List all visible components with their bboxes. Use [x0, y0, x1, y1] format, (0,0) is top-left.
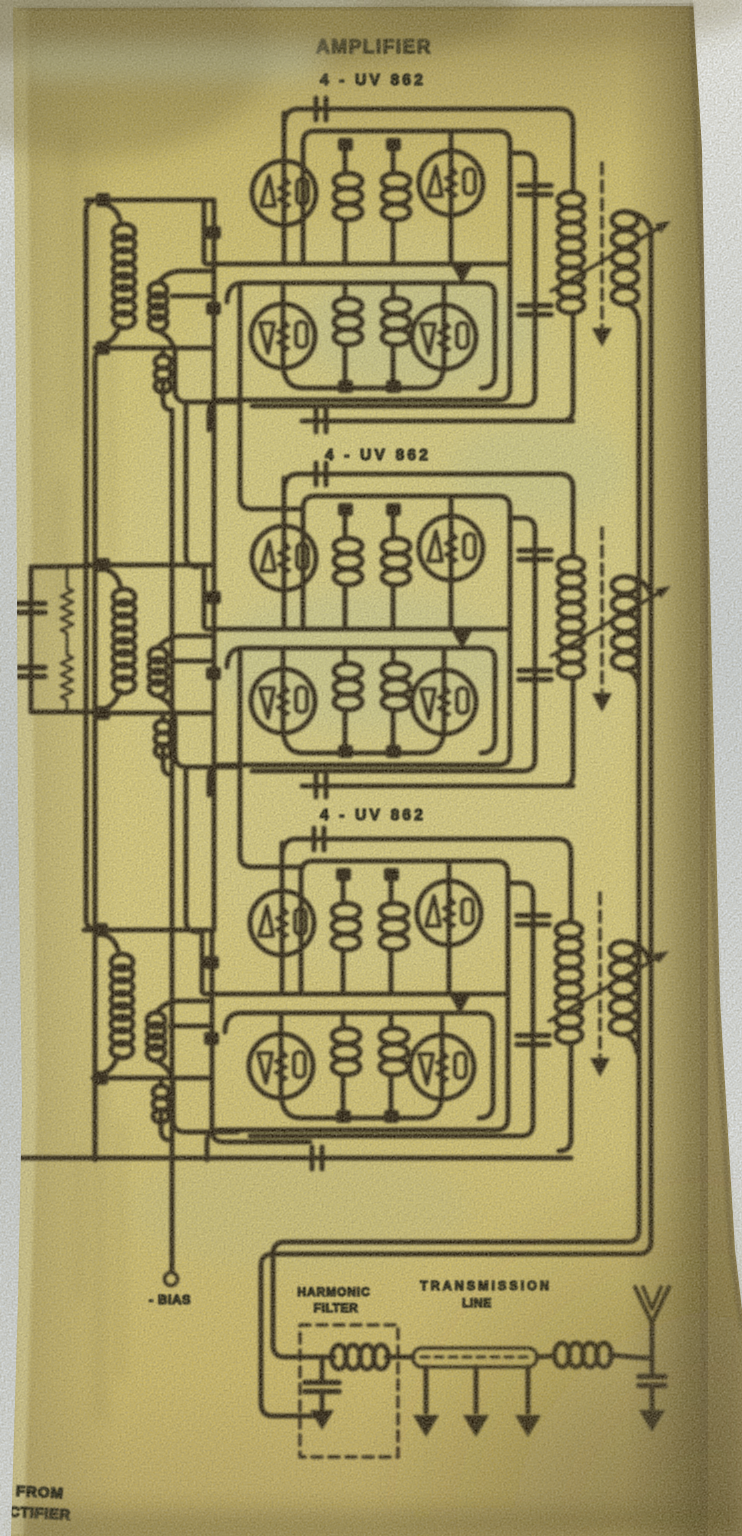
wire: bottom tube V4 centre — [442, 287, 447, 362]
wire: inner top loop / right side / bottom run — [207, 861, 508, 1160]
grid leak / choke — [161, 715, 166, 721]
RF choke column top x=393 — [391, 515, 396, 535]
interstage coupling risers — [240, 285, 303, 509]
tube V3 (UV 862) — [251, 669, 315, 733]
tube V2 (UV 862) — [417, 881, 481, 945]
wire: lower sub-box top H4 — [227, 283, 495, 388]
tube V1 (UV 862) — [252, 161, 316, 225]
wire: lower sub-box top H4 — [225, 1013, 493, 1118]
ground arrow mid-stage — [460, 629, 465, 633]
output tank: primary coil — [558, 192, 584, 208]
input transformer: node dots — [94, 923, 108, 937]
secondary lower tap to grid bus — [172, 659, 214, 664]
coupling capacitors right column — [519, 548, 551, 554]
input transformer: node dots — [96, 193, 110, 207]
coupling capacitors right column — [519, 183, 551, 189]
RF choke column bottom x=345 — [343, 285, 348, 296]
tuning dashed line with arrow — [600, 528, 604, 691]
ground arrow mid-stage — [458, 994, 463, 998]
grid bus with blobs — [210, 930, 215, 1078]
tube V1 (UV 862) — [250, 891, 314, 955]
wire: bottom grid feed — [95, 346, 214, 351]
wire: tube V2 centre riser — [449, 133, 454, 262]
RF choke column bottom x=393 — [391, 285, 396, 296]
paper top edge — [18, 5, 694, 9]
wire: outer top loop with plate blocking cap — [282, 839, 571, 922]
wire: tube V1 centre riser — [280, 843, 285, 992]
wire: left vertical from top feed to H3 — [200, 932, 205, 992]
grid bus with blobs — [212, 565, 217, 713]
wire: bottom tube V4 centre — [440, 1017, 445, 1092]
wire: inner top loop / right side / bottom run — [209, 496, 510, 795]
wire: bottom tube V3 centre — [281, 652, 286, 727]
tuning dashed line with arrow — [598, 893, 602, 1056]
output tank: secondary coil — [612, 212, 638, 229]
RF choke column bottom x=393 — [389, 1015, 394, 1026]
plate supply line stage1 — [302, 419, 573, 424]
antenna — [650, 1322, 655, 1377]
paper right edge — [691, 4, 742, 1330]
plate supply line stage2 — [302, 784, 573, 789]
antenna series cap — [639, 1374, 665, 1380]
wire: outer top loop with plate blocking cap — [284, 109, 573, 192]
RF choke column top x=345 — [343, 515, 348, 535]
harmonic filter shunt cap — [320, 1357, 325, 1381]
RF choke column top x=345 — [343, 150, 348, 170]
wire: bottom run H7 and right capacitor column — [252, 518, 535, 771]
RF choke column bottom x=345 — [343, 650, 348, 661]
tube V4 (UV 862) — [410, 1035, 474, 1099]
wire: mid grid bus H3 — [204, 992, 508, 997]
input transformer secondary — [147, 1013, 165, 1028]
RF choke column bottom x=393 — [391, 650, 396, 661]
tube V2 (UV 862) — [419, 151, 483, 215]
input transformer secondary — [149, 648, 167, 663]
plate supply line stage3 (from rectifier) — [20, 1156, 571, 1161]
wire: bottom tube connector H5 — [281, 1092, 442, 1118]
output tank: primary coil — [556, 922, 582, 938]
wire: inner top loop / right side / bottom run — [209, 131, 510, 430]
wire: tube V2 centre riser — [447, 863, 452, 992]
RF choke column bottom x=345 — [341, 1015, 346, 1026]
capacitor C-top (plate blocking) — [314, 98, 319, 120]
input transformer secondary — [149, 283, 167, 298]
secondary lower tap to grid bus — [172, 294, 214, 299]
ground arrow mid-stage — [460, 264, 465, 268]
output tank: secondary coil — [612, 577, 638, 594]
wire: left vertical from top feed to H3 — [202, 567, 207, 627]
variable coupling arrow — [551, 590, 664, 656]
grid bus inter-stage links — [212, 348, 217, 565]
input transformer primary — [103, 569, 120, 585]
right bus inner — [273, 322, 639, 1357]
interstage grid-return risers — [186, 404, 198, 567]
tuning dashed line with arrow — [600, 163, 604, 326]
tube V1 (UV 862) — [252, 526, 316, 590]
coupling capacitors right column — [517, 913, 549, 919]
wire: bottom tube V3 centre — [279, 1017, 284, 1092]
bias bus — [170, 410, 175, 1272]
wire: tube V2 centre riser — [449, 498, 454, 627]
secondary lower tap to grid bus — [170, 1024, 212, 1029]
harmonic filter box (dashed) — [300, 1325, 398, 1457]
RF choke column top x=393 — [389, 880, 394, 900]
transmission line grounds — [424, 1367, 429, 1412]
capacitor C-top (plate blocking) — [312, 828, 317, 850]
wire: top grid feed — [86, 563, 214, 568]
RF choke column top x=345 — [341, 880, 346, 900]
feed wires to stage 2 — [31, 566, 90, 567]
right photo border — [693, 0, 742, 1310]
grid leak / choke — [159, 1080, 164, 1086]
wire: mid grid bus H3 — [206, 262, 510, 267]
input transformer primary — [101, 934, 118, 950]
amplifier stage 1 — [86, 98, 671, 430]
wire: outer top loop with plate blocking cap — [284, 474, 573, 557]
wire: bottom grid feed — [95, 711, 214, 716]
tube V4 (UV 862) — [412, 670, 476, 734]
amplifier stage 3 — [84, 828, 669, 1160]
grid resistors — [61, 567, 73, 712]
variable coupling arrow — [551, 225, 664, 291]
output tank: primary coil — [558, 557, 584, 573]
tube V3 (UV 862) — [251, 304, 315, 368]
grid leak / choke — [161, 350, 166, 356]
wire: bottom run H7 and right capacitor column — [250, 883, 533, 1136]
wire: bottom tube connector H5 — [283, 362, 444, 388]
amplifier stage 2 — [86, 463, 671, 795]
wire: tube V1 centre riser — [282, 478, 287, 627]
paper pale left edge — [9, 0, 37, 1536]
right bus outer — [261, 230, 651, 1416]
grid bus with blobs — [212, 200, 217, 348]
input feed vertical with caps — [29, 567, 34, 712]
transmission line (coax) — [413, 1348, 537, 1367]
wire: left vertical from top feed to H3 — [202, 202, 207, 262]
wire: bottom tube V3 centre — [281, 287, 286, 362]
wire: lower sub-box top H4 — [227, 648, 495, 753]
variable coupling arrow — [549, 955, 662, 1021]
wire: top grid feed — [84, 928, 212, 933]
wire: bottom run H7 and right capacitor column — [252, 153, 535, 406]
RF choke column top x=393 — [391, 150, 396, 170]
series antenna coil — [537, 1356, 553, 1357]
left bus B (bottom grid feeds) — [95, 348, 107, 1160]
tube V4 (UV 862) — [412, 305, 476, 369]
input transformer: node dots — [96, 558, 110, 572]
bias terminal — [165, 1273, 178, 1286]
harmonic filter coil — [332, 1345, 347, 1369]
wire: bottom tube V4 centre — [442, 652, 447, 727]
wire: bottom tube connector H5 — [283, 727, 444, 753]
wire: bottom grid feed — [93, 1076, 212, 1081]
wire: top grid feed — [86, 198, 214, 203]
wire: mid grid bus H3 — [206, 627, 510, 632]
input transformer primary — [103, 204, 120, 220]
tube V2 (UV 862) — [419, 516, 483, 580]
wire: tube V1 centre riser — [282, 113, 287, 262]
from rectifier label — [8, 1482, 72, 1523]
tube V3 (UV 862) — [249, 1034, 313, 1098]
capacitor C-top (plate blocking) — [314, 463, 319, 485]
top photo border — [0, 0, 742, 8]
left photo border — [0, 0, 22, 1536]
output tank: secondary coil — [610, 942, 636, 959]
left bus A (top grid feeds) — [86, 200, 98, 930]
